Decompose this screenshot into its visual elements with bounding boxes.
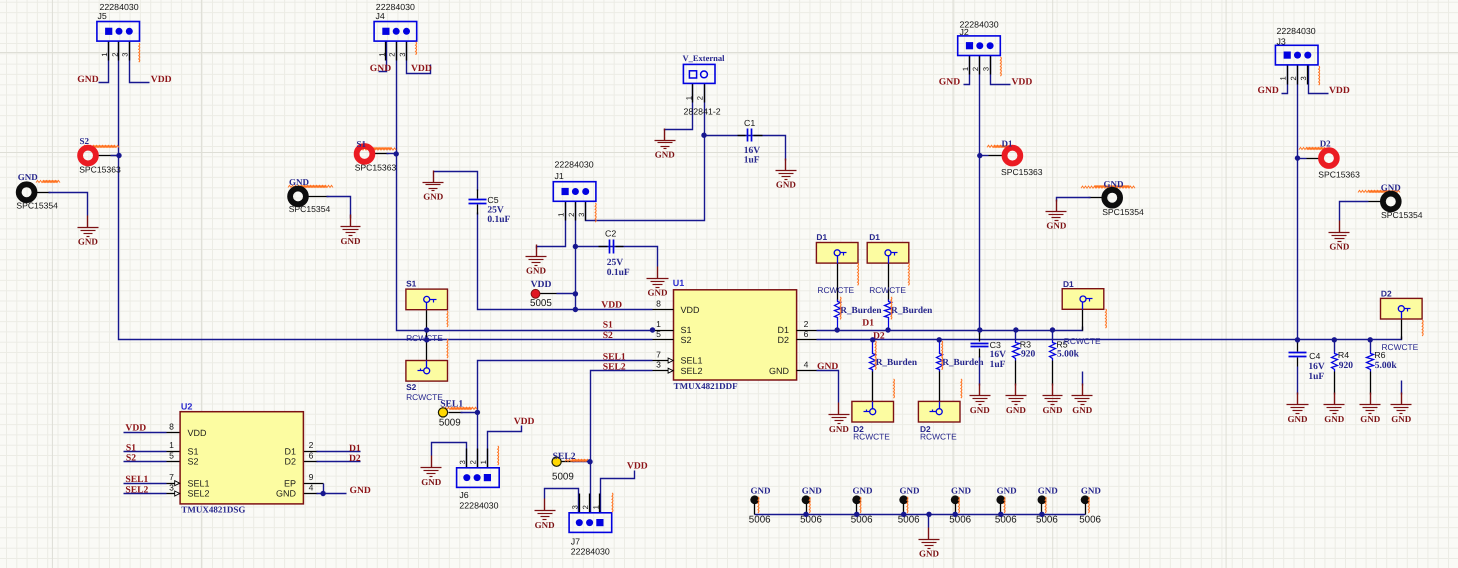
svg-text:D2: D2 [284, 457, 296, 467]
svg-text:1uF: 1uF [744, 156, 760, 166]
svg-text:16V: 16V [744, 146, 761, 156]
wire C4 branch [1297, 340, 1299, 344]
compile mark (vertical) [999, 57, 1002, 76]
svg-text:S1: S1 [188, 446, 199, 456]
svg-text:GND: GND [77, 74, 98, 85]
compile mark (horizontal) [441, 407, 477, 409]
ground (J1 pin1) [526, 245, 547, 276]
ground (V_External) [655, 129, 676, 160]
svg-text:16V: 16V [1308, 362, 1325, 372]
compile mark (vertical) [594, 203, 597, 222]
junction at (1297,158) [1295, 155, 1300, 160]
compile mark (horizontal) [83, 145, 119, 147]
junction at (704,135) [701, 133, 706, 138]
test point GND (5006) [1038, 495, 1047, 514]
svg-text:VDD: VDD [1329, 85, 1350, 96]
svg-text:VDD: VDD [188, 428, 208, 438]
svg-text:RCWCTE: RCWCTE [853, 432, 890, 442]
svg-text:GND: GND [1381, 182, 1402, 192]
compile mark (vertical) [890, 297, 893, 319]
compile mark (vertical) [859, 497, 862, 513]
wire J3 pin2 to D2 bus [1297, 65, 1299, 340]
junction at (575,246) [573, 244, 578, 249]
junction at (806,514) [803, 512, 808, 517]
wire R3 branch [1015, 331, 1017, 341]
svg-text:D1: D1 [284, 446, 296, 456]
svg-text:GND: GND [970, 405, 991, 415]
svg-text:3: 3 [169, 483, 174, 493]
svg-text:4: 4 [309, 483, 314, 493]
svg-text:22284030: 22284030 [1277, 26, 1316, 36]
svg-text:5.00k: 5.00k [1375, 361, 1398, 371]
connector J2 [958, 36, 1001, 75]
svg-text:5009: 5009 [552, 472, 574, 483]
ground (GND tp3) [1046, 200, 1067, 231]
wire J6 pin3 to GND [432, 443, 467, 468]
wire J1 pin2 vertical [575, 202, 577, 310]
test point GND (5006) [899, 495, 908, 514]
svg-text:6: 6 [804, 329, 809, 339]
svg-text:5006: 5006 [800, 514, 822, 525]
svg-text:R_Burden: R_Burden [840, 306, 882, 316]
wire SEL1 testpoint stub [449, 412, 463, 414]
svg-text:GND: GND [997, 486, 1018, 496]
junction at (477,412) [475, 410, 480, 415]
junction at (837,330) [835, 327, 840, 332]
resistor R5 (5.00k) [1050, 341, 1056, 361]
svg-text:GND: GND [1104, 179, 1125, 189]
svg-text:16V: 16V [990, 350, 1007, 360]
wire C2 net [576, 247, 658, 267]
svg-text:GND: GND [1288, 414, 1309, 424]
U2 input arrow SEL2 [175, 491, 180, 496]
connector J3 [1275, 45, 1318, 84]
svg-text:GND: GND [1081, 486, 1102, 496]
svg-text:1: 1 [557, 213, 566, 217]
svg-text:3: 3 [398, 52, 407, 56]
wire U2 VDD [124, 432, 167, 434]
junction at (1334,339) [1332, 337, 1337, 342]
junction at (872,339) [870, 337, 875, 342]
svg-text:D1: D1 [1063, 279, 1074, 289]
svg-text:1: 1 [591, 505, 600, 509]
svg-text:SPC15354: SPC15354 [289, 204, 331, 214]
svg-text:S2: S2 [188, 457, 199, 467]
wire U2 SEL2 [124, 493, 167, 495]
jumper D2 (RCWCTE lower B) [918, 401, 960, 422]
svg-text:VDD: VDD [627, 460, 648, 471]
svg-text:D2: D2 [777, 335, 789, 345]
wire jumper S1-S2 link [426, 303, 428, 368]
wire J1 pin1 to GND [537, 202, 566, 249]
svg-text:J3: J3 [1277, 36, 1286, 46]
svg-text:GND: GND [526, 266, 547, 276]
junction at (426,339) [424, 337, 429, 342]
compile mark (vertical) [497, 446, 500, 465]
test point SEL2 (5009) [552, 457, 561, 466]
jumper D1 (RCWCTE right) [1062, 289, 1104, 310]
wire J7 pin3 to GND [545, 489, 579, 513]
svg-text:GND: GND [648, 288, 669, 298]
wire D2 bus [817, 337, 1402, 340]
svg-text:D1: D1 [862, 318, 874, 329]
wire V_External pin2 [704, 84, 706, 136]
svg-text:S1: S1 [681, 325, 692, 335]
svg-text:2: 2 [804, 319, 809, 329]
svg-text:5006: 5006 [1036, 514, 1058, 525]
svg-text:SEL1: SEL1 [440, 399, 463, 410]
compile mark (vertical) [757, 497, 760, 513]
svg-text:3: 3 [656, 360, 661, 370]
svg-text:SPC15354: SPC15354 [16, 201, 58, 211]
svg-text:RCWCTE: RCWCTE [869, 285, 906, 295]
svg-text:5006: 5006 [749, 514, 771, 525]
svg-text:GND: GND [1006, 405, 1027, 415]
wire C1 net [705, 136, 786, 161]
wire U2 SEL1 [124, 483, 167, 485]
compile mark (vertical) [907, 263, 910, 285]
svg-text:U1: U1 [673, 278, 685, 288]
svg-text:3: 3 [121, 52, 130, 56]
test point VDD (5005) [531, 289, 540, 298]
jumper D1 (RCWCTE upper B) [867, 243, 909, 264]
test point S1 (SPC15363) [357, 146, 373, 162]
svg-text:SEL1: SEL1 [188, 478, 210, 488]
svg-text:EP: EP [284, 478, 296, 488]
svg-text:3: 3 [982, 67, 991, 71]
compile mark (vertical) [857, 263, 860, 285]
svg-text:GND: GND [78, 237, 99, 247]
compile mark (vertical) [1087, 497, 1090, 513]
svg-text:VDD: VDD [1012, 76, 1033, 87]
wire J7 pin1 to VDD port [601, 471, 635, 513]
svg-text:25V: 25V [487, 205, 504, 215]
svg-text:J7: J7 [571, 536, 580, 546]
wire C5 bottom to VDD bus [478, 213, 653, 310]
svg-text:VDD: VDD [411, 63, 432, 74]
wire SEL2 net [591, 371, 653, 513]
junction at (1297,339) [1295, 337, 1300, 342]
svg-text:2: 2 [971, 67, 980, 71]
U1 pin stub 6 [797, 339, 817, 341]
test point GND tp1 (SPC15354) [19, 184, 35, 200]
wire GND testpoint 4 [1369, 201, 1381, 203]
svg-text:0.1uF: 0.1uF [487, 215, 510, 225]
svg-text:SPC15363: SPC15363 [79, 164, 121, 174]
svg-text:U2: U2 [181, 402, 193, 412]
ground (C3) [970, 384, 991, 416]
wire U1 pin4 to GND [817, 371, 839, 403]
wire U2 D2 [304, 461, 318, 463]
wire S2 testpoint stub [99, 155, 119, 157]
wire R6 branch [1370, 340, 1372, 352]
jumper D1 (RCWCTE upper A) [816, 243, 858, 264]
resistor R_Burden (upper A) [835, 300, 841, 320]
test point SEL1 (5009) [438, 408, 447, 417]
svg-text:S2: S2 [80, 136, 90, 146]
compile mark (vertical) [808, 497, 811, 513]
test point GND (5006) [802, 495, 811, 514]
wire VDD testpoint stub [540, 293, 557, 295]
wire U2 GND [304, 493, 318, 495]
U1 pin stub 7 [653, 360, 674, 362]
svg-text:5.00k: 5.00k [1057, 349, 1080, 359]
jumper D2 (RCWCTE right) [1381, 298, 1423, 319]
ground (GND tp1) [78, 216, 99, 247]
svg-text:D1: D1 [1002, 138, 1013, 148]
ground (R4) [1324, 393, 1345, 424]
svg-text:5006: 5006 [1079, 514, 1101, 525]
svg-text:C3: C3 [990, 340, 1001, 350]
wire C3 branch [979, 331, 981, 335]
svg-text:GND: GND [18, 172, 39, 182]
svg-text:8: 8 [656, 299, 661, 309]
svg-text:5006: 5006 [949, 514, 971, 525]
wire C5 top to GND [434, 172, 478, 191]
svg-text:D1: D1 [777, 325, 789, 335]
ground (GND tp2) [341, 215, 362, 247]
wire J2 pin2 to D1 bus [979, 56, 981, 331]
compile mark (vertical) [1318, 66, 1321, 85]
test point GND (5006) [750, 495, 759, 514]
junction at (903,514) [901, 512, 906, 517]
svg-text:7: 7 [169, 472, 174, 482]
svg-text:RCWCTE: RCWCTE [1382, 342, 1419, 352]
U1 pin stub 4 [797, 370, 817, 372]
wire U2 D1 [304, 451, 318, 453]
svg-text:R_Burden: R_Burden [942, 358, 984, 368]
svg-text:GND: GND [751, 486, 772, 496]
svg-text:SEL2: SEL2 [553, 451, 576, 462]
svg-text:GND: GND [919, 548, 940, 558]
connector J7 [569, 494, 612, 533]
svg-text:22284030: 22284030 [555, 160, 594, 170]
junction at (1041,514) [1039, 512, 1044, 517]
svg-text:J4: J4 [376, 11, 385, 21]
wire jumper D2 to GND stub [1401, 381, 1403, 395]
svg-text:6: 6 [309, 451, 314, 461]
svg-text:GND: GND [829, 424, 850, 434]
svg-text:GND: GND [1038, 486, 1059, 496]
junction at (939,339) [937, 337, 942, 342]
compile mark (vertical) [874, 341, 877, 370]
svg-text:SEL2: SEL2 [188, 489, 210, 499]
wire J3 pin3 to VDD port [1309, 65, 1329, 94]
svg-text:9: 9 [309, 472, 314, 482]
svg-text:SPC15354: SPC15354 [1381, 210, 1423, 220]
jumper S2 (RCWCTE) [406, 361, 448, 382]
U2 input arrow SEL1 [175, 481, 180, 486]
test point S2 (SPC15363) [80, 148, 96, 164]
wire jumper D1 to GND stub [1082, 372, 1084, 386]
junction at (856,514) [854, 512, 859, 517]
ground (R5) [1043, 384, 1064, 416]
svg-text:5006: 5006 [851, 514, 873, 525]
svg-text:1: 1 [1279, 76, 1288, 80]
compile mark (vertical) [415, 42, 418, 55]
svg-text:VDD: VDD [531, 279, 552, 290]
compile mark (vertical) [611, 493, 614, 512]
svg-text:RCWCTE: RCWCTE [920, 432, 957, 442]
connector V_External (282841-2) [683, 64, 715, 102]
svg-text:RCWCTE: RCWCTE [406, 392, 443, 402]
junction at (590,461) [587, 459, 592, 464]
svg-text:3: 3 [1299, 76, 1308, 80]
svg-text:S2: S2 [603, 330, 613, 341]
svg-text:D2: D2 [1381, 289, 1392, 299]
wire GND bus 5006 row [755, 514, 1086, 516]
svg-text:D2: D2 [1320, 138, 1331, 148]
compile mark (vertical) [941, 341, 944, 370]
test point GND tp3 (SPC15354) [1104, 190, 1120, 206]
wire J2 pin1 to GND port [964, 56, 970, 85]
wire upper R_Burden A [837, 263, 839, 301]
junction at (979,330) [977, 327, 982, 332]
svg-text:GND: GND [817, 361, 838, 372]
svg-text:22284030: 22284030 [571, 547, 610, 557]
svg-text:VDD: VDD [601, 300, 622, 311]
wire R4 branch [1334, 340, 1336, 352]
svg-text:VDD: VDD [151, 74, 172, 85]
U1 pin stub 5 [653, 339, 674, 341]
compile mark (vertical) [446, 311, 449, 327]
U1 pin stub 3 [653, 370, 674, 372]
resistor R_Burden (lower B) [937, 352, 943, 372]
svg-text:D2: D2 [349, 453, 361, 464]
svg-text:SPC15363: SPC15363 [1001, 167, 1043, 177]
svg-text:S2: S2 [681, 335, 692, 345]
U1 input arrow SEL1 [668, 358, 673, 363]
svg-text:5005: 5005 [530, 298, 552, 309]
svg-text:22284030: 22284030 [459, 500, 498, 510]
wire lower R_Burden B [939, 340, 941, 353]
ground (C4) [1287, 393, 1309, 424]
wire GND testpoint 3 [1089, 197, 1102, 199]
resistor R6 (5.00k) [1367, 352, 1374, 372]
wire D1 testpoint stub [989, 155, 1003, 157]
svg-text:SPC15363: SPC15363 [1318, 169, 1360, 179]
compile mark (vertical) [839, 297, 842, 319]
resistor R3 (920) [1013, 341, 1020, 361]
svg-text:C2: C2 [605, 229, 616, 239]
svg-text:SEL1: SEL1 [681, 356, 703, 366]
connector J6 [457, 449, 500, 488]
svg-text:1uF: 1uF [1308, 372, 1324, 382]
compile mark (vertical) [1003, 497, 1006, 513]
svg-text:2: 2 [309, 440, 314, 450]
svg-text:282841-2: 282841-2 [684, 106, 721, 116]
svg-text:S1: S1 [406, 279, 417, 289]
svg-text:J1: J1 [555, 171, 564, 181]
svg-text:GND: GND [951, 486, 972, 496]
test point GND tp2 (SPC15354) [290, 189, 306, 205]
connector J1 [553, 182, 596, 221]
svg-text:GND: GND [1072, 405, 1093, 415]
svg-text:1uF: 1uF [990, 360, 1006, 370]
ground (C1) [776, 159, 797, 190]
ground (J6) [421, 456, 442, 488]
svg-text:J2: J2 [960, 27, 969, 37]
svg-text:VDD: VDD [681, 305, 701, 315]
ground (GND tp4) [1329, 221, 1350, 252]
svg-text:J5: J5 [98, 11, 107, 21]
svg-text:RCWCTE: RCWCTE [817, 285, 854, 295]
test point D1 (SPC15363) [1005, 148, 1021, 164]
svg-text:5006: 5006 [898, 514, 920, 525]
connector J5 [97, 22, 140, 61]
svg-text:2: 2 [110, 52, 119, 56]
wire J5 pin1 to GND port [99, 42, 109, 83]
connector J4 [374, 22, 417, 61]
wire lower R_Burden A [872, 340, 874, 353]
svg-text:GND: GND [802, 486, 823, 496]
svg-text:4: 4 [804, 360, 809, 370]
wire J4 pin1 to GND port [379, 42, 387, 72]
svg-text:S2: S2 [126, 453, 136, 464]
svg-text:GND: GND [276, 489, 297, 499]
svg-text:7: 7 [656, 350, 661, 360]
svg-text:2: 2 [388, 52, 397, 56]
svg-text:GND: GND [535, 520, 556, 530]
svg-text:920: 920 [1339, 361, 1354, 371]
svg-text:V_External: V_External [683, 53, 726, 63]
svg-text:5: 5 [169, 451, 174, 461]
svg-text:R_Burden: R_Burden [876, 358, 918, 368]
compile mark (vertical) [1044, 497, 1047, 513]
svg-text:S1: S1 [603, 320, 613, 331]
wire J5 pin2 to S2 bus [119, 42, 653, 340]
capacitor C2 (25V 0.1uF) [599, 240, 624, 254]
compile mark (vertical) [958, 497, 961, 513]
svg-text:1: 1 [377, 52, 386, 56]
ground (C5) [423, 171, 444, 202]
wire D1 bus [817, 327, 1083, 331]
svg-text:D1: D1 [816, 232, 827, 242]
compile mark (vertical) [1421, 320, 1424, 336]
compile mark (horizontal) [36, 180, 60, 182]
wire J2 pin3 to VDD port [991, 56, 1011, 85]
U1 pin stub 1 [653, 330, 674, 332]
svg-text:GND: GND [853, 486, 874, 496]
svg-text:GND: GND [769, 366, 790, 376]
svg-text:GND: GND [776, 179, 797, 189]
IC U1 TMUX4821DDF [674, 290, 797, 380]
compile mark (vertical) [906, 497, 909, 513]
compile mark (horizontal) [360, 148, 396, 150]
svg-text:R_Burden: R_Burden [891, 306, 933, 316]
svg-text:GND: GND [1258, 85, 1279, 96]
svg-text:C1: C1 [744, 118, 755, 128]
U1 input arrow SEL2 [668, 368, 673, 373]
ground (R3) [1006, 384, 1027, 416]
U1 pin stub 2 [797, 330, 817, 332]
wire U2 EP [304, 483, 324, 485]
compile mark (horizontal) [0, 0, 1, 1]
svg-text:GND: GND [1391, 414, 1412, 424]
test point GND (5006) [1081, 495, 1090, 514]
junction at (426,330) [424, 327, 429, 332]
junction at (888,330) [885, 327, 890, 332]
junction at (652,330) [650, 327, 655, 332]
ground (R6) [1360, 393, 1381, 424]
IC U2 TMUX4821DSG [180, 412, 303, 504]
compile mark (vertical) [960, 379, 963, 398]
junction at (1000,514) [998, 512, 1003, 517]
svg-text:VDD: VDD [514, 416, 535, 427]
U1 pin stub 8 [653, 309, 674, 311]
svg-text:1: 1 [479, 460, 488, 464]
svg-text:D1: D1 [349, 443, 361, 454]
